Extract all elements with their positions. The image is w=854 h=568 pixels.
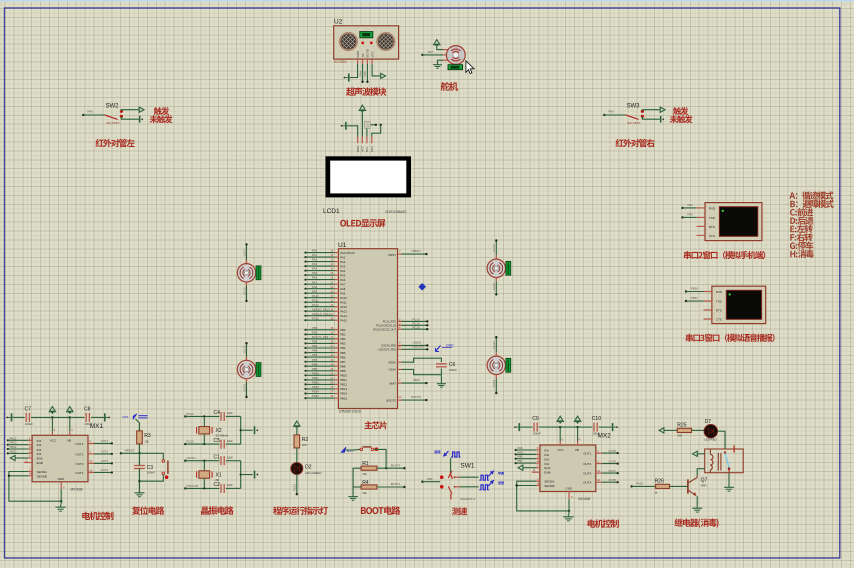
wire button to BOOT0 bbox=[374, 449, 387, 469]
wire PA3 bbox=[304, 262, 334, 267]
svg-text:MX1508: MX1508 bbox=[578, 497, 590, 501]
pin stub PA12 bbox=[335, 305, 348, 309]
wire BOOT1_PB2 bbox=[304, 335, 334, 340]
svg-text:NPN: NPN bbox=[701, 484, 707, 488]
virtual terminal 串口2窗口（模拟手机端） bbox=[705, 203, 762, 241]
svg-text:PA4: PA4 bbox=[312, 267, 318, 271]
pin stub SWDIO_PA13 bbox=[335, 309, 348, 313]
pin stub OUT2 MX1 bbox=[88, 451, 94, 454]
wire U2 ECHO bbox=[363, 64, 368, 83]
wire PC13 bbox=[402, 318, 429, 323]
wire C5 right bbox=[226, 443, 241, 445]
svg-text:10k: 10k bbox=[362, 472, 367, 476]
power rail terminal right MX1 bbox=[105, 413, 110, 421]
reset button bbox=[162, 460, 168, 479]
wire OUT1 MX1 bbox=[94, 439, 113, 444]
svg-text:PA8: PA8 bbox=[340, 287, 346, 291]
wire to boot button bbox=[345, 448, 360, 451]
pin stub motor bottom bbox=[246, 282, 248, 286]
OLED power arrow bbox=[359, 105, 365, 113]
pin stub motor top bbox=[495, 352, 497, 356]
terminal arrow ENA MX2 bbox=[518, 465, 525, 470]
relay coil bbox=[710, 449, 721, 473]
label relay bbox=[674, 518, 718, 527]
svg-text:PB10: PB10 bbox=[340, 374, 347, 378]
wire PA10 bbox=[304, 294, 334, 299]
label 串口2窗口（模拟手机端） bbox=[684, 251, 765, 259]
svg-text:R3: R3 bbox=[144, 433, 151, 439]
svg-text:PB8: PB8 bbox=[340, 364, 346, 368]
wire U2 GND bbox=[350, 64, 358, 78]
boot blue terminal bbox=[341, 447, 354, 453]
power label GND blue bbox=[436, 344, 455, 352]
svg-text:VCC: VCC bbox=[361, 145, 365, 152]
svg-text:OUT2: OUT2 bbox=[242, 287, 246, 295]
wire C1 right bbox=[226, 460, 241, 462]
pin stub motor top bbox=[246, 260, 248, 264]
svg-text:PB7: PB7 bbox=[517, 459, 523, 463]
svg-text:PA2: PA2 bbox=[688, 203, 694, 207]
pin stub PA10 bbox=[335, 296, 348, 300]
pin stub PB12 bbox=[335, 383, 348, 387]
wire U2 VCC bbox=[372, 64, 378, 76]
svg-text:7: 7 bbox=[399, 250, 401, 253]
svg-text:PB1: PB1 bbox=[340, 333, 346, 337]
wire PA2 串口2窗口（模拟手机端） bbox=[681, 203, 696, 209]
pin stub PA5 bbox=[335, 273, 346, 277]
pin TXD 串口3窗口（模拟语音播报） bbox=[704, 300, 723, 304]
ground terminal U2 bbox=[344, 74, 349, 82]
svg-text:32.768kHz: 32.768kHz bbox=[216, 434, 229, 438]
capacitor C10 bbox=[592, 416, 601, 435]
wire OUT2 MX1 bbox=[94, 450, 113, 455]
motor bbox=[237, 264, 255, 282]
pin stub PA7 bbox=[335, 282, 346, 286]
label not-triggered right bbox=[670, 115, 693, 123]
svg-text:RTS: RTS bbox=[709, 225, 715, 229]
svg-text:PB10: PB10 bbox=[312, 371, 319, 375]
wire crystal top bbox=[203, 416, 205, 426]
LCD1 label bbox=[323, 208, 340, 215]
label servo bbox=[441, 82, 458, 91]
wire OUT2 bbox=[242, 286, 247, 302]
pin stub PB1 bbox=[335, 333, 346, 337]
svg-text:PA2: PA2 bbox=[340, 260, 346, 264]
label 串口3窗口（模拟语音播报） bbox=[686, 334, 775, 342]
wire button bottom bbox=[140, 475, 164, 482]
svg-text:100uF: 100uF bbox=[25, 422, 33, 426]
svg-text:OUT7: OUT7 bbox=[608, 469, 616, 473]
pin stub PB7 MX2 bbox=[536, 460, 540, 463]
svg-text:PB9: PB9 bbox=[312, 367, 318, 371]
part number MX1 bbox=[71, 488, 83, 492]
ground MX1 bbox=[55, 505, 65, 512]
wire OSCOUT bbox=[402, 344, 429, 350]
svg-text:OUT7: OUT7 bbox=[492, 341, 496, 349]
svg-text:OUT1: OUT1 bbox=[242, 248, 246, 256]
driver MX2 label bbox=[598, 433, 612, 440]
power rail terminal left MX2 bbox=[514, 423, 519, 431]
svg-text:U1: U1 bbox=[338, 242, 347, 249]
svg-text:VBAT: VBAT bbox=[389, 381, 396, 385]
wire OUT5 MX2 bbox=[602, 449, 619, 454]
node PA6 left bbox=[82, 110, 93, 117]
terminal arrow SW3 bbox=[658, 107, 666, 112]
wire GND MX2 bbox=[568, 499, 570, 514]
wire R1 left bbox=[353, 468, 361, 487]
OLED pin stubs bbox=[358, 137, 372, 144]
wire OUT4 MX1 bbox=[94, 468, 113, 473]
svg-text:OUT8: OUT8 bbox=[492, 379, 496, 387]
svg-text:BOOT0: BOOT0 bbox=[412, 395, 422, 399]
wire PA11 bbox=[304, 298, 334, 303]
svg-text:PA6: PA6 bbox=[340, 278, 346, 282]
capacitor C3 bbox=[134, 465, 155, 475]
svg-text:PA13: PA13 bbox=[340, 309, 347, 313]
svg-text:C4: C4 bbox=[214, 410, 221, 416]
pin stub PB8 bbox=[335, 364, 346, 368]
pin stub PA3 bbox=[335, 264, 346, 268]
svg-text:9: 9 bbox=[562, 439, 564, 442]
svg-text:OUT3: OUT3 bbox=[583, 472, 591, 476]
wire xtal right vertical bbox=[240, 416, 242, 444]
crystal X2 bbox=[197, 427, 229, 438]
svg-text:U2: U2 bbox=[334, 19, 343, 26]
driver MX1 pin names bbox=[37, 438, 84, 481]
svg-text:R4: R4 bbox=[362, 480, 369, 486]
resistor R3 bbox=[137, 431, 151, 444]
pin stub PB0 bbox=[335, 328, 346, 332]
pin stub OUT3 MX2 bbox=[596, 470, 602, 473]
pin RTS 串口2窗口（模拟手机端） bbox=[697, 225, 715, 229]
U1 part number bbox=[339, 409, 361, 413]
pin stub BOOT1_PB2 bbox=[335, 337, 346, 341]
wire to ground boot bbox=[352, 487, 354, 494]
blue marker bbox=[418, 283, 426, 291]
wire ENA MX1 bbox=[17, 455, 32, 458]
wire SWDIO_PA13 bbox=[304, 307, 334, 312]
svg-text:LCD1: LCD1 bbox=[323, 208, 340, 215]
svg-text:PA3: PA3 bbox=[312, 262, 318, 266]
svg-text:OUT5: OUT5 bbox=[492, 244, 496, 252]
svg-text:PB11: PB11 bbox=[312, 376, 319, 380]
wire D7 to relay bbox=[718, 431, 726, 449]
ground terminal xtal bbox=[255, 426, 259, 434]
pin stub SWCLK_PA14 bbox=[335, 314, 348, 318]
svg-text:RTS: RTS bbox=[716, 309, 722, 313]
wire xtal gnd bbox=[241, 429, 253, 431]
wire BOOT0 net bbox=[377, 463, 406, 469]
svg-text:X1: X1 bbox=[216, 472, 222, 478]
wire PB7 bbox=[304, 358, 334, 363]
resistor R25 bbox=[677, 423, 691, 438]
node PC14 bbox=[184, 412, 194, 418]
part number MX2 bbox=[578, 497, 590, 501]
servo motor body bbox=[446, 46, 465, 65]
svg-text:8: 8 bbox=[571, 496, 573, 499]
svg-text:HCSR04: HCSR04 bbox=[334, 60, 347, 64]
mode list line 5 bbox=[790, 225, 812, 233]
ultrasonic module U2 body bbox=[334, 26, 399, 59]
wire PC14 row bbox=[185, 415, 219, 417]
pin stub PB7 bbox=[335, 360, 346, 364]
pin stub PB13 bbox=[335, 387, 348, 391]
main chip U1 label bbox=[338, 242, 347, 249]
pin stub motor top bbox=[495, 255, 497, 259]
mode list line 7 bbox=[790, 241, 813, 249]
pin stub OUT4 MX1 bbox=[88, 469, 94, 472]
svg-text:1: 1 bbox=[29, 468, 31, 471]
svg-text:8: 8 bbox=[63, 486, 65, 489]
capacitor C8 bbox=[84, 407, 93, 426]
svg-text:PA10: PA10 bbox=[340, 296, 347, 300]
pin OSCIN bbox=[381, 342, 401, 348]
svg-text:MX1508: MX1508 bbox=[71, 488, 83, 492]
svg-text:OSCOUT: OSCOUT bbox=[187, 484, 199, 488]
pin stub VB MX1 bbox=[70, 417, 73, 435]
label program LED bbox=[273, 506, 328, 514]
svg-text:PB13: PB13 bbox=[312, 385, 319, 389]
mouse cursor bbox=[466, 61, 474, 74]
ground servo bbox=[433, 63, 442, 69]
svg-text:SW-SPDT: SW-SPDT bbox=[627, 121, 641, 125]
pin RXD 串口2窗口（模拟手机端） bbox=[697, 206, 716, 210]
svg-text:GND: GND bbox=[565, 487, 573, 491]
svg-text:300: 300 bbox=[677, 434, 682, 438]
ground Q7 bbox=[692, 506, 702, 512]
relay body bbox=[705, 449, 744, 473]
svg-text:PB12: PB12 bbox=[10, 436, 17, 440]
svg-text:PA10: PA10 bbox=[312, 294, 319, 298]
power arrow VCC MX1 bbox=[49, 407, 55, 415]
wire OSCIN row bbox=[185, 460, 219, 462]
wire xtal gnd bbox=[241, 474, 253, 476]
motor speed indicator bbox=[256, 363, 261, 377]
svg-text:C7: C7 bbox=[25, 407, 32, 413]
node PC15 bbox=[184, 440, 194, 446]
node PA5 right bbox=[603, 110, 614, 117]
wire OSCIN bbox=[402, 341, 429, 347]
svg-text:OUT4: OUT4 bbox=[101, 468, 109, 472]
pin VBAT bbox=[389, 379, 402, 385]
svg-text:3: 3 bbox=[90, 451, 92, 454]
label main chip bbox=[364, 421, 386, 429]
svg-text:BOOT: BOOT bbox=[347, 449, 355, 453]
pin stub motor bottom bbox=[495, 277, 497, 281]
svg-text:NRST: NRST bbox=[388, 253, 396, 257]
wire SW2 NC bbox=[121, 116, 139, 119]
label ultrasonic module bbox=[346, 87, 386, 95]
label crystal circuit bbox=[201, 506, 234, 515]
svg-text:100uF: 100uF bbox=[85, 422, 93, 426]
svg-text:ENA: ENA bbox=[37, 457, 43, 461]
svg-text:SWDIO_PA13: SWDIO_PA13 bbox=[312, 307, 330, 311]
svg-text:OSCOUT: OSCOUT bbox=[412, 344, 424, 348]
svg-text:R1: R1 bbox=[362, 461, 369, 467]
wire PB14 bbox=[304, 390, 334, 395]
svg-text:ECHO: ECHO bbox=[366, 48, 370, 57]
svg-text:PB3: PB3 bbox=[340, 342, 346, 346]
svg-text:C8: C8 bbox=[84, 407, 91, 413]
pin VDDA bbox=[388, 360, 401, 364]
svg-text:PA7: PA7 bbox=[340, 282, 346, 286]
pin stub OUT3 MX1 bbox=[88, 460, 94, 463]
wire PB0 bbox=[422, 481, 440, 483]
U2 pin stubs bbox=[358, 59, 373, 64]
wire C3 top bbox=[139, 453, 141, 465]
wire U2 TR bbox=[358, 64, 363, 83]
svg-text:IN2: IN2 bbox=[37, 443, 42, 447]
svg-text:LED-GREEN: LED-GREEN bbox=[305, 471, 321, 475]
svg-text:5: 5 bbox=[399, 342, 401, 345]
pin CTS 串口2窗口（模拟手机端） bbox=[697, 234, 715, 238]
U2 distance display bbox=[360, 32, 373, 38]
pin stub PB6 bbox=[335, 355, 346, 359]
wire PA15 bbox=[304, 316, 334, 321]
driver MX1 label bbox=[90, 423, 104, 430]
svg-text:PA5: PA5 bbox=[312, 271, 318, 275]
wire C3 bottom bbox=[138, 469, 140, 483]
wire R25 to D7 bbox=[692, 429, 705, 431]
svg-text:PA1: PA1 bbox=[340, 255, 346, 259]
svg-text:OUT4: OUT4 bbox=[75, 471, 83, 475]
wire VBAT bbox=[402, 378, 428, 384]
ground MX2 bbox=[563, 514, 573, 521]
svg-text:RXD: RXD bbox=[716, 290, 723, 294]
pin stub PB11 bbox=[335, 378, 348, 382]
svg-text:VDDA: VDDA bbox=[388, 360, 396, 364]
pin PC14 bbox=[376, 323, 401, 328]
resistor R26 bbox=[655, 479, 670, 495]
svg-text:PB4: PB4 bbox=[312, 344, 318, 348]
wire R26 to Q7 bbox=[670, 485, 688, 487]
svg-text:4: 4 bbox=[579, 439, 581, 442]
svg-text:SW-ROT-4: SW-ROT-4 bbox=[460, 497, 475, 501]
svg-text:SW3: SW3 bbox=[627, 104, 641, 110]
pin stub OUT1 MX2 bbox=[596, 450, 602, 453]
wire GND MX1 bbox=[60, 489, 62, 504]
label reset circuit bbox=[132, 506, 164, 515]
wire OUT8 MX2 bbox=[602, 478, 619, 483]
svg-text:PC15: PC15 bbox=[413, 325, 420, 329]
node PB0 bbox=[421, 477, 433, 483]
wire OUT6 MX2 bbox=[602, 459, 619, 464]
svg-text:2: 2 bbox=[90, 440, 92, 443]
pin stub PB15 bbox=[335, 396, 348, 400]
svg-text:OUT2: OUT2 bbox=[75, 452, 83, 456]
pin stub PA11 bbox=[335, 300, 347, 304]
pin stub OUT4 MX2 bbox=[596, 479, 602, 482]
capacitor C4 bbox=[214, 410, 234, 421]
speed low terminal bbox=[479, 480, 504, 490]
wire PC14 bbox=[402, 321, 429, 326]
terminal SW2 NC bbox=[140, 116, 143, 123]
wire PB4 bbox=[304, 344, 334, 349]
pin stub VCC MX1 bbox=[52, 417, 55, 435]
wire rail mid MX1 bbox=[31, 416, 85, 418]
capacitor C9 bbox=[532, 416, 541, 435]
svg-text:12pF: 12pF bbox=[227, 456, 233, 460]
svg-text:100nF: 100nF bbox=[147, 471, 155, 475]
wire PB11 bbox=[304, 376, 334, 381]
svg-text:4: 4 bbox=[71, 429, 73, 432]
wire NREST bbox=[402, 249, 428, 255]
mode list line 2 bbox=[790, 200, 834, 208]
wire rail mid MX2 bbox=[539, 426, 593, 428]
wire OUT7 bbox=[492, 336, 497, 352]
svg-text:OUT8: OUT8 bbox=[608, 478, 616, 482]
pin stub PA8 bbox=[335, 287, 346, 291]
pin TXD 串口2窗口（模拟手机端） bbox=[697, 216, 716, 220]
svg-text:PB10: PB10 bbox=[691, 287, 698, 291]
svg-text:NREST: NREST bbox=[412, 249, 422, 253]
svg-text:OUT4: OUT4 bbox=[583, 481, 591, 485]
ground terminal xtal bbox=[255, 471, 259, 479]
wire R4 left bbox=[353, 486, 361, 488]
svg-text:BOOT1_PB2: BOOT1_PB2 bbox=[312, 335, 329, 339]
pin stub PA4 bbox=[335, 269, 346, 273]
wire PB15 bbox=[304, 394, 334, 399]
svg-text:OUT6: OUT6 bbox=[608, 459, 616, 463]
wire PA8 MX2 bbox=[515, 446, 536, 451]
svg-text:SDA: SDA bbox=[370, 146, 374, 152]
wire OUT1 bbox=[242, 243, 247, 260]
crystal X1 bbox=[197, 471, 222, 482]
svg-text:100uF: 100uF bbox=[533, 432, 541, 436]
pin stub PA1 bbox=[335, 255, 346, 259]
wire PC15 row bbox=[185, 443, 219, 445]
wire crystal bottom bbox=[203, 478, 205, 488]
wire PB8 bbox=[304, 362, 334, 367]
svg-text:44: 44 bbox=[399, 396, 402, 399]
svg-text:PC15: PC15 bbox=[187, 440, 194, 444]
svg-text:OUT2: OUT2 bbox=[583, 462, 591, 466]
capacitor C6 bbox=[436, 362, 457, 372]
svg-text:SENSB: SENSB bbox=[544, 484, 554, 488]
U2 right transducer bbox=[364, 32, 408, 52]
svg-text:PB11: PB11 bbox=[340, 378, 347, 382]
wire PB13 MX1 bbox=[7, 441, 29, 446]
pin NRST bbox=[388, 250, 401, 257]
svg-text:LED-RED: LED-RED bbox=[704, 437, 716, 441]
LED power arrow bbox=[294, 421, 300, 429]
svg-text:PB5: PB5 bbox=[340, 351, 346, 355]
mode list line 6 bbox=[790, 233, 812, 241]
svg-text:OUT1: OUT1 bbox=[583, 452, 591, 456]
wire PB12 MX1 bbox=[7, 436, 29, 441]
OLED pin labels bbox=[356, 145, 374, 153]
wire OSCOUT row bbox=[185, 487, 219, 489]
wire OLED vcc bbox=[361, 113, 363, 137]
svg-text:IN2: IN2 bbox=[544, 453, 549, 457]
svg-text:PA5: PA5 bbox=[609, 110, 615, 114]
wire PB6 bbox=[304, 353, 334, 358]
power rail terminal left MX1 bbox=[6, 413, 11, 421]
label motor control left bbox=[82, 512, 113, 520]
resistor R1 bbox=[361, 461, 377, 476]
wire OUT3 bbox=[242, 342, 247, 357]
motor bbox=[237, 360, 255, 378]
mode list line 4 bbox=[790, 217, 813, 225]
node OSCOUT bbox=[184, 484, 199, 490]
wire crystal top bbox=[203, 461, 205, 471]
svg-text:OSCOUT_PD1: OSCOUT_PD1 bbox=[378, 348, 396, 352]
pin stub PA2 bbox=[335, 260, 346, 264]
pin stub PB13 MX1 bbox=[28, 442, 32, 445]
svg-text:GND: GND bbox=[58, 477, 66, 481]
svg-text:14: 14 bbox=[597, 479, 600, 482]
wire PC15 bbox=[402, 325, 429, 330]
